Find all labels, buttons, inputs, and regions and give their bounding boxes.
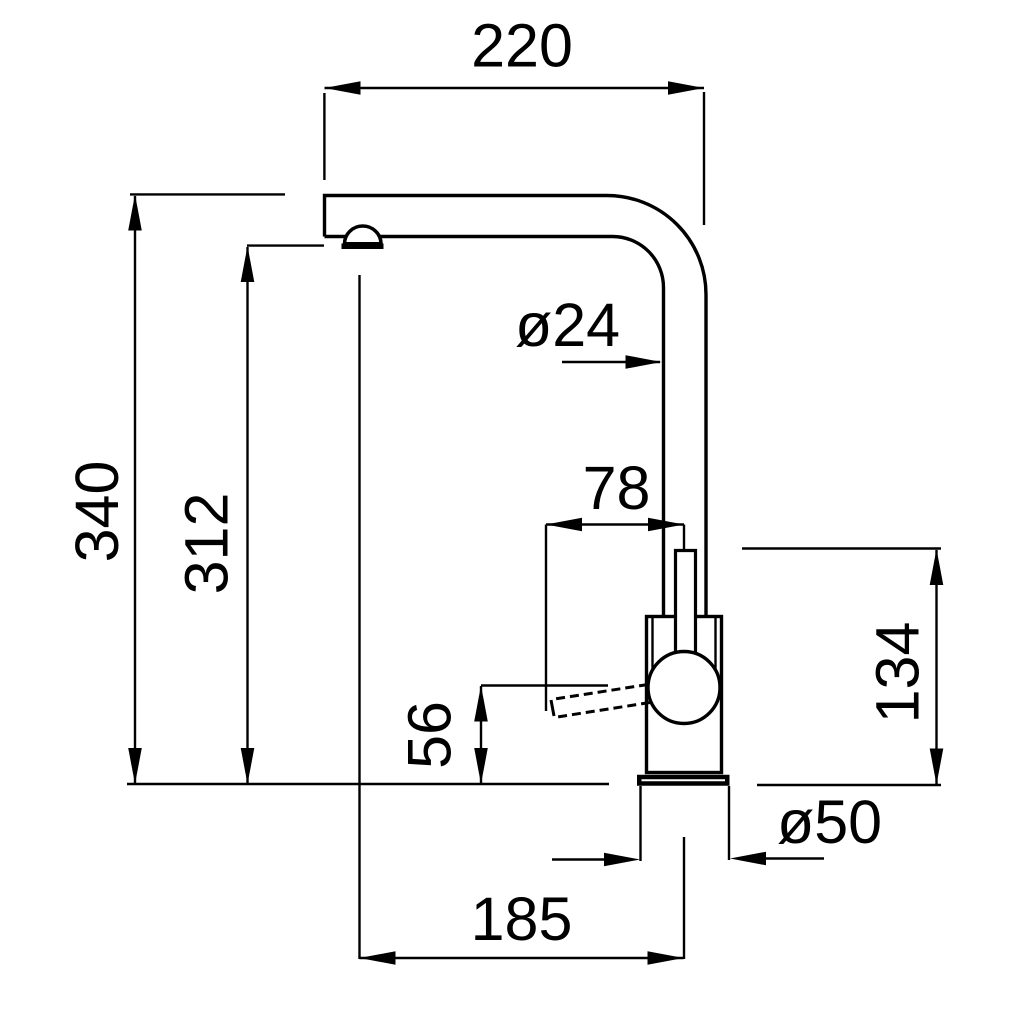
svg-text:185: 185 <box>471 885 573 953</box>
dim 78 right extension <box>683 525 685 550</box>
dim 78 right arrow <box>648 518 684 532</box>
dia 50 right arrow <box>730 852 766 866</box>
dim 56 line <box>480 686 482 783</box>
aerator base bar <box>342 243 384 249</box>
svg-text:220: 220 <box>471 12 573 80</box>
svg-text:134: 134 <box>864 622 932 724</box>
dim 312 down arrow <box>241 748 255 784</box>
dim 134 line <box>935 550 937 784</box>
dim 56 up arrow <box>474 686 488 722</box>
spout tube outer outline <box>325 196 707 617</box>
svg-text:56: 56 <box>396 701 464 769</box>
lever stick <box>676 551 696 656</box>
svg-text:78: 78 <box>583 454 651 522</box>
dim 134 up arrow <box>930 549 944 585</box>
dim 312 extension <box>247 244 324 246</box>
dim 185 left extension <box>358 275 360 959</box>
svg-text:ø24: ø24 <box>515 291 620 359</box>
dim 340 top extension <box>130 193 285 195</box>
dim 312 up arrow <box>241 246 255 282</box>
tailpiece right extension line <box>728 786 730 860</box>
body inner line left <box>651 618 653 670</box>
dashed lever end cap <box>551 700 554 716</box>
dia 24 leader line <box>562 361 660 363</box>
body housing <box>647 617 722 773</box>
dim 78 left extension <box>545 525 547 712</box>
dim 312 line <box>246 247 248 783</box>
dim 134 bottom extension <box>757 784 941 786</box>
svg-text:ø50: ø50 <box>777 788 882 856</box>
countertop baseline <box>127 783 609 785</box>
dim 220 line <box>325 87 705 89</box>
aerator dome <box>345 226 382 244</box>
dim 134 top extension <box>742 547 941 549</box>
dia 50 right leader <box>762 857 824 859</box>
dashed lever upper line <box>552 685 649 700</box>
dim 185 line <box>360 957 684 959</box>
dim 78 left arrow <box>546 518 582 532</box>
dim 340 up arrow <box>128 195 142 231</box>
dim 134 down arrow <box>930 749 944 785</box>
svg-text:340: 340 <box>63 461 131 563</box>
dia 50 left arrow <box>604 853 640 867</box>
dia 50 left leader <box>552 858 608 860</box>
tailpiece centerline <box>683 837 685 959</box>
dim 185 left arrow <box>360 951 396 965</box>
dia 24 arrow <box>626 355 662 369</box>
dim 185 right arrow <box>648 951 684 965</box>
dim 78 line <box>546 523 684 525</box>
spout tube inner outline <box>325 237 664 617</box>
dim 340 down arrow <box>128 748 142 784</box>
dim 220 right arrow <box>668 81 704 95</box>
dashed lever lower line <box>554 703 650 718</box>
body inner line right <box>714 618 716 672</box>
dim 220 right extension <box>703 92 705 225</box>
dim 220 left arrow <box>325 81 361 95</box>
tailpiece left extension line <box>639 786 641 861</box>
cartridge ball circle <box>648 652 720 724</box>
svg-text:312: 312 <box>173 493 241 595</box>
dim 56 down arrow <box>474 748 488 784</box>
base flange <box>639 777 727 784</box>
dim 56 top extension <box>481 684 608 686</box>
dim 220 left extension <box>323 93 325 180</box>
dim 340 line <box>134 196 136 783</box>
